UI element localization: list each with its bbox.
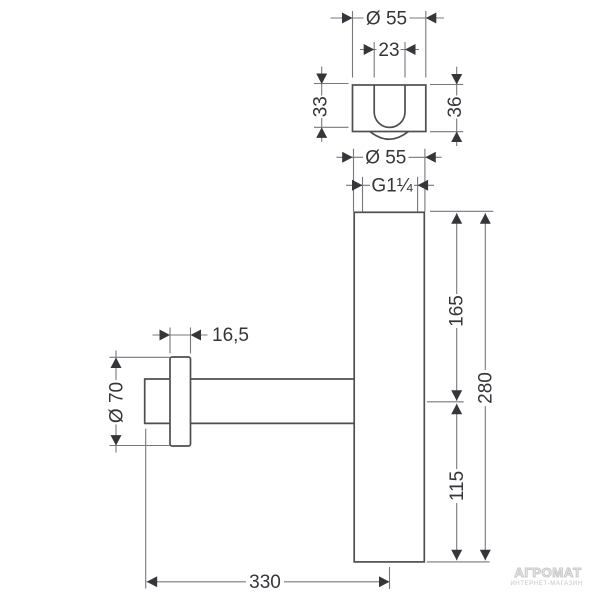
svg-text:23: 23	[378, 40, 399, 61]
dimension D55 tube: arrows	[342, 152, 353, 163]
svg-text:16,5: 16,5	[212, 325, 249, 346]
svg-text:33: 33	[310, 96, 331, 117]
dimension 36: dimension line	[456, 67, 458, 146]
bracket top-view body	[353, 85, 426, 139]
svg-text:280: 280	[476, 372, 497, 404]
svg-text:Ø 55: Ø 55	[366, 8, 407, 29]
svg-text:Ø 55: Ø 55	[365, 148, 406, 169]
dimension 165: arrows	[451, 213, 462, 224]
dimension 330: arrows	[147, 576, 158, 587]
siphon tube body	[354, 212, 424, 562]
dimension D70: arrows	[111, 358, 122, 369]
dimension 33: dimension line	[321, 67, 323, 142]
dimension 280: arrows	[480, 213, 491, 224]
dimension 23: dimension line	[360, 49, 419, 51]
dimension 280: dimension line	[484, 213, 486, 560]
tube top extension line	[430, 210, 493, 212]
svg-text:ИНТЕРНЕТ-МАГАЗИН: ИНТЕРНЕТ-МАГАЗИН	[510, 580, 582, 587]
svg-text:G1¼: G1¼	[371, 176, 413, 197]
svg-text:36: 36	[445, 96, 466, 117]
dimension 16,5: dimension line	[153, 334, 208, 336]
dimension 36: arrows	[451, 74, 462, 85]
svg-text:АГРОМАТ: АГРОМАТ	[514, 565, 581, 580]
tube bottom extension line	[427, 561, 490, 563]
dimension 33: arrows	[316, 74, 327, 85]
dimension 23: extension lines	[373, 42, 375, 78]
dimension 16,5: extension lines	[169, 328, 171, 354]
svg-text:Ø 70: Ø 70	[106, 382, 127, 423]
dimension D55 tube: extension lines	[353, 149, 355, 212]
dimension 23: arrows	[364, 44, 375, 55]
dimension D70: dimension line	[115, 351, 117, 453]
svg-text:330: 330	[249, 572, 281, 593]
dimension 330: dimension line	[147, 581, 390, 583]
dimension 36: extension lines	[430, 84, 463, 86]
pipe centre extension line	[427, 401, 464, 403]
dimension G1-1/4: dimension line	[346, 184, 434, 186]
dimension D55 top: extension lines	[352, 11, 354, 78]
svg-text:165: 165	[446, 295, 467, 327]
dimension D70: extension lines	[110, 356, 170, 358]
dimension G1-1/4: extension lines	[362, 177, 364, 212]
dimension D55 tube: dimension line	[337, 156, 442, 158]
dimension D55 top: arrows	[342, 13, 353, 24]
wall flange	[170, 357, 191, 446]
wall pipe body	[145, 379, 355, 423]
dimension G1-1/4: arrows	[352, 180, 363, 191]
dimension D55 top: dimension line	[331, 17, 445, 19]
dimension 165: dimension line	[456, 213, 458, 400]
svg-text:115: 115	[447, 471, 468, 501]
dimension 115: dimension line	[456, 404, 458, 561]
dimension 115: arrows	[451, 404, 462, 415]
dimension 16,5: arrows	[160, 330, 171, 341]
dimension 33: extension lines	[314, 83, 349, 85]
dimension 330: extension lines	[145, 429, 147, 589]
